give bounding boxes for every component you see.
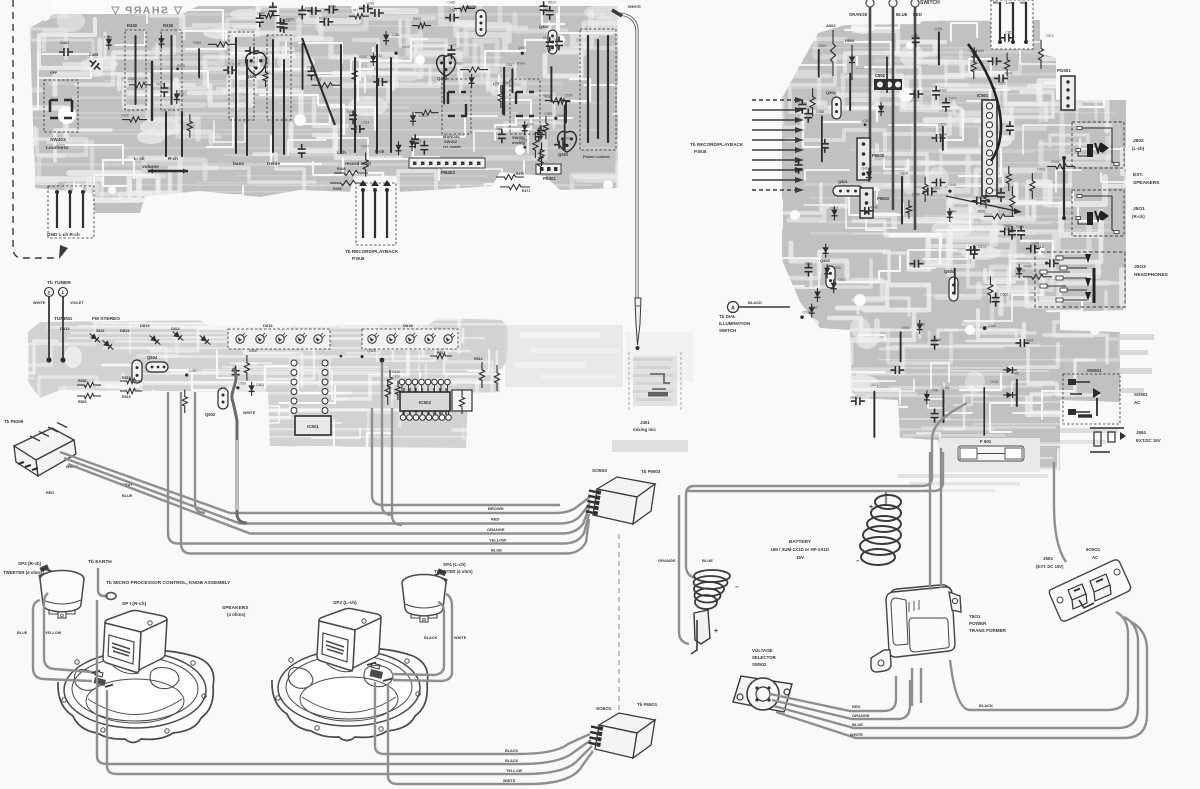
svg-text:WHITE: WHITE (503, 779, 516, 783)
blank IC pad box (452, 390, 472, 411)
svg-text:R489: R489 (1024, 265, 1032, 269)
IC501 (982, 100, 997, 196)
bottom smear streaks (898, 474, 1048, 492)
svg-text:SP2 (L-ch): SP2 (L-ch) (333, 600, 357, 606)
LED D815 row (228, 329, 330, 349)
svg-text:R559: R559 (934, 338, 942, 342)
svg-text:SP4 (L-ch): SP4 (L-ch) (443, 562, 466, 567)
svg-text:C487: C487 (350, 9, 358, 13)
component cluster R3 (800, 241, 1060, 334)
svg-text:D571: D571 (838, 278, 846, 282)
svg-text:IC602: IC602 (419, 400, 432, 405)
svg-text:C891: C891 (863, 119, 871, 123)
svg-text:C572: C572 (563, 137, 571, 141)
speaker SP1 (R-ch) (58, 649, 214, 743)
svg-text:SWITCH: SWITCH (719, 328, 736, 333)
svg-text:C518: C518 (990, 380, 998, 384)
transistor Q406 (437, 55, 456, 76)
svg-text:C596: C596 (1052, 258, 1060, 262)
svg-text:Q604: Q604 (147, 355, 158, 360)
svg-text:IC601: IC601 (307, 424, 319, 429)
wire: SP1 to bottom run (107, 690, 592, 774)
svg-text:SP3 (R-ch): SP3 (R-ch) (18, 561, 42, 566)
diode D504 (851, 53, 853, 67)
svg-text:D580: D580 (912, 193, 920, 197)
svg-text:C486: C486 (392, 33, 400, 37)
svg-text:POWER: POWER (969, 621, 987, 626)
svg-text:R812: R812 (474, 357, 483, 361)
svg-text:R540: R540 (359, 55, 367, 59)
dashed cable frame to tuner (13, 0, 58, 258)
svg-text:Q404: Q404 (246, 74, 257, 79)
svg-text:D568: D568 (249, 349, 257, 353)
PCB board: power amp / main P.W.B (top right) (782, 20, 1126, 472)
svg-text:C845: C845 (833, 266, 841, 270)
svg-text:T5O1: T5O1 (969, 614, 981, 619)
volume pot pins L-ch (165, 112, 167, 156)
component cluster (bottom band) (298, 127, 548, 176)
connector P6500 (857, 138, 870, 180)
svg-text:C485: C485 (447, 1, 455, 5)
svg-text:R544: R544 (517, 62, 525, 66)
potentiometer R435 (161, 30, 182, 110)
svg-text:(4 ohms): (4 ohms) (227, 612, 246, 617)
svg-text:Tb P65O1: Tb P65O1 (637, 702, 658, 707)
svg-text:Q421: Q421 (870, 383, 878, 387)
svg-text:BLUE: BLUE (17, 631, 28, 635)
svg-text:A502: A502 (826, 23, 836, 28)
connector to record/playback pwb (356, 183, 396, 245)
svg-text:C518: C518 (176, 92, 184, 96)
svg-text:C451: C451 (189, 369, 197, 373)
svg-text:D813: D813 (120, 328, 130, 333)
wire: right spring to rail (885, 491, 887, 504)
transformer top leads from PCB (929, 452, 931, 590)
svg-text:VIOLET: VIOLET (70, 301, 84, 305)
svg-text:SO503: SO503 (592, 468, 607, 474)
svg-text:PG501: PG501 (1057, 68, 1071, 73)
svg-text:R518: R518 (1006, 228, 1014, 232)
wire: white lead from strip (232, 368, 247, 523)
svg-text:BLACK: BLACK (424, 636, 438, 640)
svg-text:VOLTAGE: VOLTAGE (752, 648, 773, 653)
strip fade tail (505, 325, 623, 387)
connector columns (291, 360, 297, 366)
wire: BD206 to SO503 (brown/red/orange) (60, 452, 590, 513)
fuse F501 (958, 446, 1024, 461)
svg-text:R483: R483 (939, 88, 947, 92)
svg-text:R535: R535 (805, 262, 813, 266)
tuner wires (48, 297, 50, 362)
svg-text:Tb MICRO PROCESSOR CONTROL,: Tb MICRO PROCESSOR CONTROL, KNOB ASSEMBL… (106, 580, 231, 586)
svg-text:Tb P6206: Tb P6206 (4, 419, 24, 424)
right-end resistors (479, 362, 484, 388)
svg-text:E: E (47, 291, 50, 296)
potentiometer R440 (125, 30, 146, 110)
IC602 (400, 392, 450, 411)
long pointer (946, 196, 1016, 211)
connector PB402 (409, 158, 485, 168)
svg-text:RED: RED (913, 12, 922, 17)
svg-text:BLACK: BLACK (505, 749, 519, 753)
svg-text:YELLOW: YELLOW (506, 769, 523, 773)
svg-text:R818: R818 (122, 395, 131, 399)
svg-text:D586: D586 (799, 101, 807, 105)
svg-text:C482: C482 (949, 96, 957, 100)
SP2 terminal (370, 669, 384, 679)
svg-text:P.W.B: P.W.B (352, 256, 365, 261)
svg-text:R470: R470 (526, 122, 534, 126)
svg-text:Q442: Q442 (374, 54, 382, 58)
record level pots (340, 45, 342, 153)
svg-text:R-ch: R-ch (168, 156, 178, 161)
transistor Q405 (476, 10, 486, 36)
resistor A502 (830, 30, 835, 76)
svg-text:GND L-ch R-ch: GND L-ch R-ch (47, 232, 80, 237)
transistor Q604 (132, 360, 142, 383)
wire: tweeter SP4 leads (392, 602, 444, 675)
microphone wire (white) (620, 14, 637, 300)
svg-text:WHITE: WHITE (628, 4, 641, 9)
svg-text:Q427: Q427 (361, 144, 369, 148)
component cluster (center field) (303, 31, 571, 166)
svg-text:HEADPHONES: HEADPHONES (1134, 272, 1169, 278)
component cluster (right edge) (498, 46, 572, 150)
svg-text:C844: C844 (948, 209, 956, 213)
svg-text:R446: R446 (333, 187, 342, 191)
transistor Q503 (826, 266, 835, 288)
svg-text:C513: C513 (361, 121, 369, 125)
svg-text:Q450: Q450 (347, 110, 355, 114)
svg-text:Q418: Q418 (367, 349, 375, 353)
svg-text:(R-ch): (R-ch) (1132, 214, 1145, 219)
svg-text:UM / SUM-1X1D or HP-2X1D: UM / SUM-1X1D or HP-2X1D (771, 547, 829, 552)
svg-text:F: F (62, 291, 65, 296)
svg-text:Tb RECORD/PLAYBACK: Tb RECORD/PLAYBACK (345, 249, 399, 254)
component cluster R2 (795, 119, 1076, 240)
svg-text:FM STEREO: FM STEREO (92, 316, 120, 322)
svg-text:C579: C579 (104, 35, 112, 39)
wire white (776, 622, 1147, 738)
svg-text:C573: C573 (978, 245, 986, 249)
svg-text:Loudness: Loudness (46, 145, 69, 151)
svg-text:(EXT. DC 15V): (EXT. DC 15V) (1036, 564, 1064, 569)
svg-text:R590: R590 (286, 18, 294, 22)
svg-text:C502: C502 (875, 73, 886, 78)
svg-text:C425: C425 (89, 53, 98, 57)
svg-text:D588: D588 (816, 110, 824, 114)
battery spring (right) (875, 495, 901, 509)
svg-text:TWEETER (4 ohm): TWEETER (4 ohm) (434, 569, 473, 574)
treble pot (267, 35, 291, 120)
svg-text:P6500: P6500 (872, 153, 885, 158)
svg-text:Q402: Q402 (539, 24, 550, 29)
transistor Q602 (218, 388, 228, 409)
volume arrow (148, 170, 188, 173)
svg-text:ORANGE: ORANGE (487, 527, 505, 532)
svg-text:BLUE: BLUE (852, 722, 863, 727)
connector PG501 (1061, 76, 1075, 110)
svg-text:Q502: Q502 (826, 90, 837, 95)
switch SW501 (1063, 374, 1120, 424)
svg-text:mixing mic: mixing mic (633, 427, 656, 432)
svg-text:SO501: SO501 (1134, 392, 1148, 397)
svg-text:R841: R841 (1005, 71, 1013, 75)
mic body (629, 352, 681, 410)
svg-text:R470: R470 (516, 172, 524, 176)
link bar by jacks (1063, 158, 1065, 218)
svg-text:ORANGE: ORANGE (852, 713, 870, 718)
svg-text:Q406: Q406 (437, 76, 448, 81)
speaker SP2 (L-ch) (272, 647, 428, 741)
svg-text:Q503: Q503 (820, 258, 831, 263)
svg-text:OFF: OFF (50, 71, 58, 75)
transistor Q502 (832, 97, 841, 119)
wire blue (774, 617, 1138, 728)
svg-text:TWEETER (4 ohms): TWEETER (4 ohms) (3, 570, 45, 575)
tweeter SP4 (L-ch) (402, 569, 447, 622)
svg-text:J401: J401 (640, 420, 650, 425)
svg-text:−: − (856, 558, 860, 565)
black jumper wire (968, 44, 1001, 161)
PCB board: main amplifier P.W.B (top left) (30, 3, 618, 213)
svg-text:D818: D818 (403, 323, 413, 328)
svg-text:F 501: F 501 (980, 439, 992, 444)
svg-text:SO5O1: SO5O1 (596, 706, 612, 711)
svg-text:TUNING: TUNING (54, 316, 73, 322)
svg-text:C519: C519 (1046, 34, 1054, 38)
svg-text:Q488: Q488 (941, 386, 949, 390)
switch SW402 rec mode (442, 79, 471, 134)
svg-text:C564: C564 (974, 196, 982, 200)
svg-text:WHITE: WHITE (243, 411, 256, 415)
svg-text:C895: C895 (519, 139, 527, 143)
wire: right PCB to battery (orange) (686, 403, 967, 578)
svg-text:R455: R455 (449, 43, 457, 47)
diodes near SW501 (1003, 367, 1017, 373)
svg-text:WHITE: WHITE (33, 301, 46, 305)
svg-text:C887: C887 (830, 206, 838, 210)
svg-text:C422: C422 (121, 113, 129, 117)
svg-text:Tb RECORD/PLAYBACK: Tb RECORD/PLAYBACK (690, 142, 744, 147)
resistors R470/R471 below edge (496, 174, 524, 179)
svg-text:D593: D593 (901, 326, 909, 330)
svg-text:D518: D518 (319, 16, 327, 20)
svg-text:C556: C556 (314, 77, 322, 81)
svg-text:R563: R563 (850, 396, 858, 400)
svg-text:R824: R824 (900, 171, 908, 175)
resistor R448 (334, 170, 368, 175)
svg-text:C597: C597 (449, 9, 457, 13)
svg-text:D566: D566 (1000, 292, 1008, 296)
svg-text:Q490: Q490 (518, 46, 526, 50)
svg-text:volume: volume (142, 164, 159, 170)
svg-text:R822: R822 (994, 188, 1002, 192)
svg-text:J504: J504 (1043, 556, 1053, 561)
svg-text:P812: P812 (437, 351, 445, 355)
component cluster (top row caps) (256, 0, 556, 33)
svg-text:9O5O1: 9O5O1 (1086, 547, 1101, 552)
svg-text:Q602: Q602 (205, 412, 216, 417)
svg-text:WHITE: WHITE (454, 636, 467, 640)
svg-text:ORANGE: ORANGE (849, 12, 868, 17)
svg-text:AC: AC (1134, 400, 1141, 405)
SHARP logo (mirrored) (52, 0, 182, 14)
svg-text:C417: C417 (232, 63, 240, 67)
wire: strip drops to SO503 (yellow/blue) (168, 392, 589, 544)
transformer bottom leads (911, 668, 913, 706)
jack J503 headphones (1035, 252, 1125, 307)
svg-text:BLUE: BLUE (702, 558, 713, 563)
transistor Q501 (833, 186, 863, 196)
svg-text:BLUE: BLUE (896, 12, 908, 17)
svg-text:D580: D580 (257, 11, 265, 15)
jack J504 ext dc (1090, 428, 1124, 452)
svg-text:TRANS FORMER: TRANS FORMER (969, 628, 1007, 633)
svg-text:D815: D815 (140, 323, 150, 328)
svg-text:WHITE: WHITE (850, 732, 863, 737)
svg-text:D812: D812 (60, 326, 70, 331)
svg-text:R440: R440 (127, 23, 138, 28)
svg-text:J504: J504 (1136, 430, 1146, 435)
svg-text:L-ch: L-ch (337, 150, 346, 155)
svg-text:YELLOW: YELLOW (45, 631, 62, 635)
svg-text:D816: D816 (263, 323, 273, 328)
LED D818 row (362, 329, 458, 349)
svg-text:L- ch: L- ch (134, 156, 145, 161)
svg-text:bass: bass (233, 161, 244, 167)
svg-text:Power control: Power control (583, 154, 610, 159)
svg-text:SWITCH: SWITCH (920, 0, 940, 6)
svg-text:SP I (R-ch): SP I (R-ch) (122, 601, 147, 607)
svg-text:C838: C838 (366, 2, 374, 6)
svg-text:Tb TUNER: Tb TUNER (47, 280, 71, 286)
power control slider (580, 29, 616, 150)
svg-text:R486: R486 (193, 41, 201, 45)
svg-text:P.W.B: P.W.B (694, 149, 707, 154)
svg-text:SELECTOR: SELECTOR (752, 655, 777, 660)
transformer T501 (871, 585, 961, 672)
wire orange (772, 680, 910, 719)
svg-text:D814: D814 (171, 327, 180, 331)
svg-text:R883: R883 (413, 17, 421, 21)
svg-text:R446: R446 (870, 206, 878, 210)
svg-text:C496: C496 (930, 389, 938, 393)
svg-text:BLUE: BLUE (491, 548, 502, 553)
svg-text:D559: D559 (565, 93, 573, 97)
svg-text:C546: C546 (939, 133, 947, 137)
wire red (770, 676, 896, 711)
svg-text:Q504: Q504 (944, 269, 955, 274)
svg-text:PB402: PB402 (441, 170, 455, 175)
svg-text:D539: D539 (803, 311, 811, 315)
mic plug J401 (635, 298, 641, 345)
svg-text:R855: R855 (818, 44, 826, 48)
circles row above IC602 (399, 379, 405, 385)
wire: tweeter SP3 leads (33, 600, 92, 681)
svg-text:Tb P6503: Tb P6503 (641, 469, 661, 474)
svg-text:RED: RED (491, 517, 500, 522)
strip cluster (182, 349, 264, 413)
connector C502 (874, 79, 902, 90)
svg-text:R471: R471 (522, 189, 530, 193)
svg-text:Tb DIAL: Tb DIAL (719, 314, 736, 319)
svg-text:C559: C559 (502, 81, 510, 85)
component cluster (left field) (104, 35, 268, 138)
svg-text:BROWN: BROWN (488, 506, 504, 511)
battery plus plate (left) (694, 610, 710, 644)
svg-text:C430: C430 (911, 34, 919, 38)
svg-text:C549: C549 (128, 77, 136, 81)
switch SW403 Loudness (44, 80, 78, 132)
svg-text:C441: C441 (553, 38, 561, 42)
svg-text:SPEAKERS: SPEAKERS (222, 605, 249, 611)
svg-text:BATTERY: BATTERY (789, 539, 812, 545)
svg-text:C522: C522 (269, 5, 277, 9)
svg-text:C825: C825 (543, 36, 551, 40)
svg-text:C859: C859 (544, 112, 552, 116)
svg-text:+: + (869, 504, 873, 511)
svg-text:R495: R495 (402, 45, 410, 49)
component cluster R1 (798, 27, 1053, 162)
wire from fuse to socket (1054, 462, 1066, 562)
svg-text:R450: R450 (1016, 225, 1024, 229)
svg-text:C816: C816 (392, 370, 400, 374)
svg-text:treble: treble (267, 161, 280, 167)
transistor Q404 (246, 53, 266, 76)
connector PB401 (536, 164, 561, 174)
svg-text:R843: R843 (543, 94, 551, 98)
svg-text:C885: C885 (557, 114, 565, 118)
svg-text:C882: C882 (810, 305, 818, 309)
svg-text:(L-ch): (L-ch) (1132, 146, 1145, 151)
svg-text:J502: J502 (1133, 138, 1144, 144)
svg-text:J5O1: J5O1 (1133, 206, 1145, 212)
svg-text:ORANGE: ORANGE (658, 558, 676, 563)
transistor Q402 (548, 30, 557, 54)
svg-text:EXT.: EXT. (1133, 172, 1143, 178)
svg-text:R435: R435 (163, 23, 174, 28)
svg-text:C853: C853 (1005, 31, 1013, 35)
svg-text:ILLUMINATION: ILLUMINATION (719, 321, 750, 326)
svg-text:D539: D539 (856, 65, 864, 69)
wire: SP2 to bottom run (375, 682, 590, 754)
svg-text:R426: R426 (1026, 338, 1034, 342)
svg-text:D563: D563 (1037, 168, 1045, 172)
svg-text:R534: R534 (976, 49, 984, 53)
bass pot (229, 32, 254, 120)
svg-text:BLACK: BLACK (748, 300, 762, 305)
dashed separator line (618, 534, 620, 722)
svg-text:EXT.DC 15V: EXT.DC 15V (1136, 438, 1161, 443)
scan streak tails (1060, 334, 1154, 444)
svg-text:C454: C454 (392, 374, 400, 378)
wire: right PCB to battery (blue) (687, 452, 943, 491)
svg-text:R-ch: R-ch (375, 149, 385, 154)
wire: strip drop brown join (195, 392, 205, 513)
svg-text:RED: RED (993, 1, 1000, 5)
svg-text:RED: RED (852, 704, 861, 709)
svg-text:R896: R896 (917, 323, 925, 327)
wire black (950, 612, 1128, 710)
svg-text:R546: R546 (932, 187, 940, 191)
IC601 (295, 416, 331, 435)
svg-text:S813: S813 (96, 329, 104, 333)
transistor Q504 (949, 277, 958, 301)
svg-text:SW501: SW501 (1087, 368, 1102, 373)
svg-text:R852: R852 (978, 210, 986, 214)
svg-text:L-ch: L-ch (1006, 1, 1013, 5)
